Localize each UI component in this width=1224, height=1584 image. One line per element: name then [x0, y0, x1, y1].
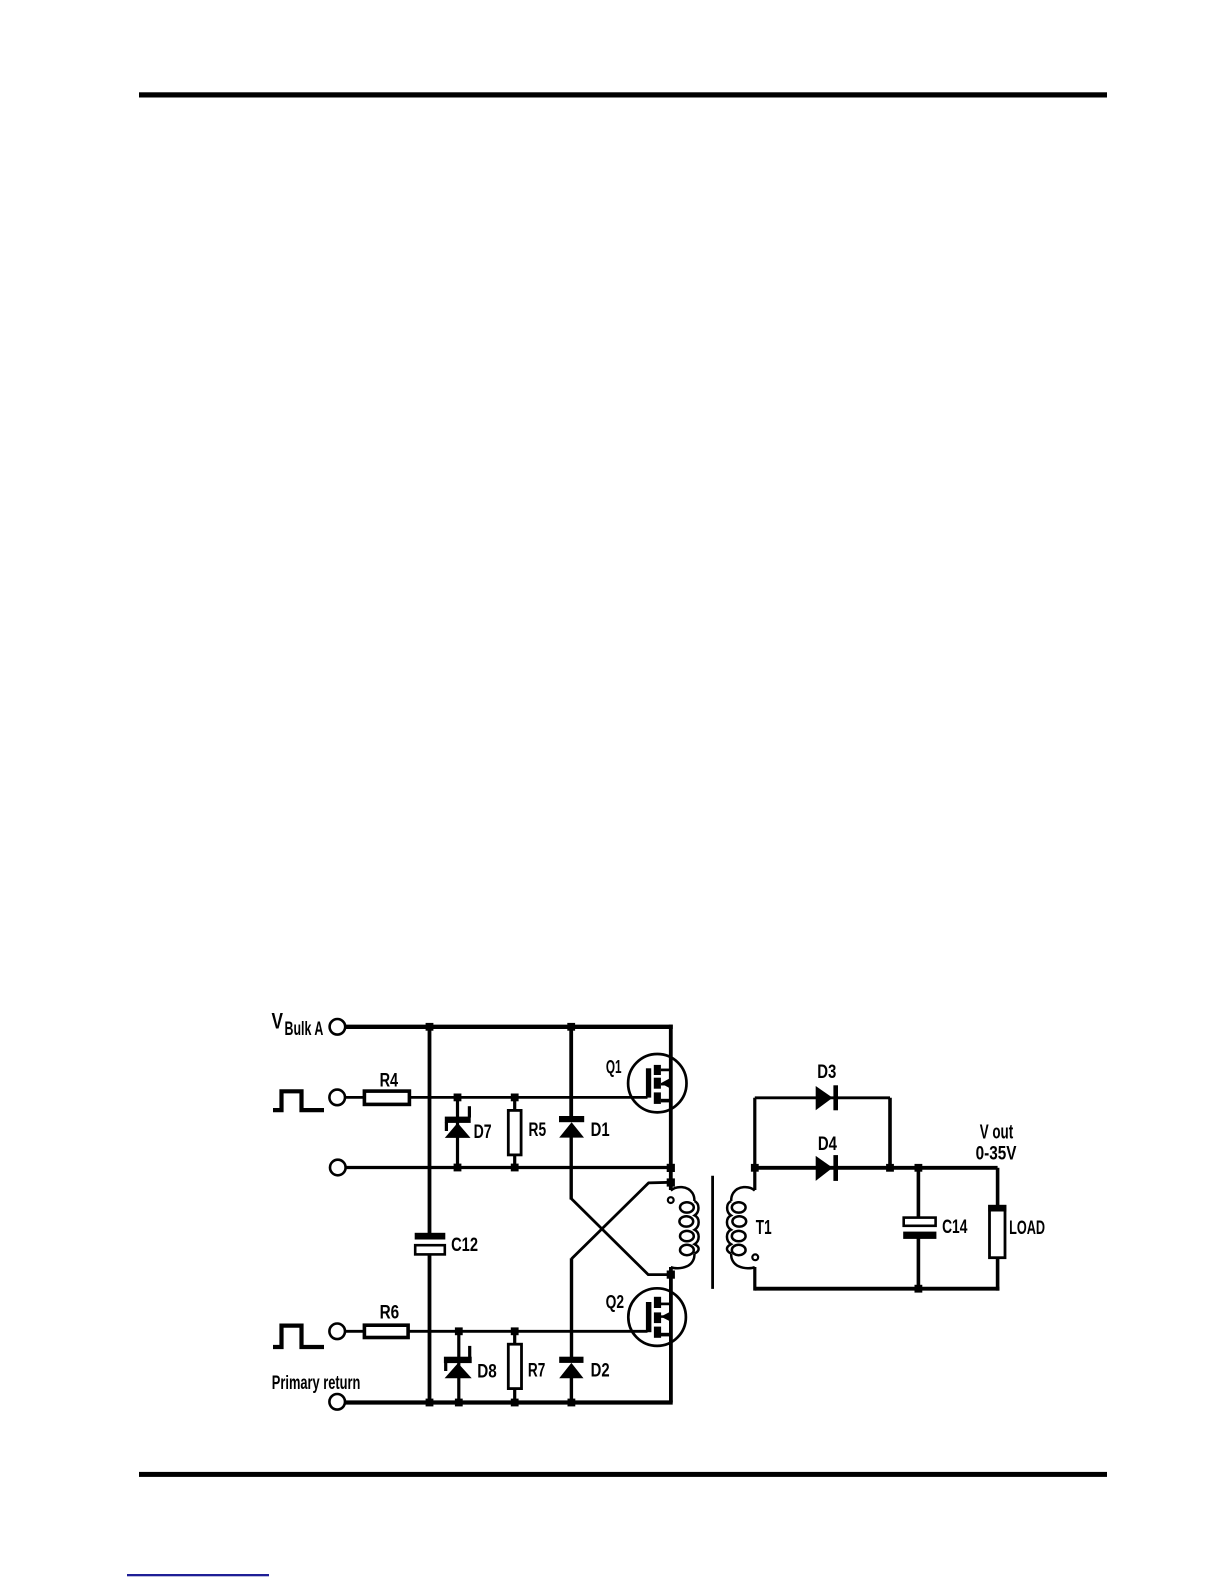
svg-text:C14: C14 — [942, 1217, 967, 1238]
svg-text:Bulk A: Bulk A — [285, 1019, 324, 1040]
svg-text:D2: D2 — [591, 1361, 610, 1382]
svg-text:D7: D7 — [474, 1122, 492, 1143]
svg-text:D3: D3 — [817, 1062, 836, 1083]
svg-text:D8: D8 — [477, 1361, 497, 1382]
svg-text:V: V — [272, 1008, 284, 1033]
svg-text:Primary return: Primary return — [272, 1373, 361, 1394]
svg-text:Q1: Q1 — [606, 1057, 622, 1077]
svg-text:R5: R5 — [529, 1120, 547, 1141]
svg-text:V out: V out — [980, 1120, 1014, 1143]
svg-text:0-35V: 0-35V — [976, 1144, 1017, 1165]
svg-text:R6: R6 — [380, 1303, 400, 1324]
svg-text:R4: R4 — [380, 1071, 399, 1092]
svg-text:R7: R7 — [528, 1360, 545, 1381]
svg-text:C12: C12 — [451, 1235, 478, 1256]
svg-text:LOAD: LOAD — [1009, 1218, 1045, 1239]
svg-text:Q2: Q2 — [606, 1291, 624, 1312]
svg-text:D4: D4 — [818, 1134, 837, 1155]
svg-text:T1: T1 — [756, 1216, 772, 1239]
svg-text:D1: D1 — [591, 1120, 610, 1141]
